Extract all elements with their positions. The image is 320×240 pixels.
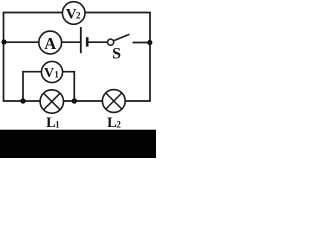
voltmeter V2: [62, 2, 85, 25]
wire: battery to switch: [87, 41, 107, 43]
wire: left bus: [3, 13, 5, 102]
wire: V1 loop top-right corner and lead: [63, 72, 75, 101]
wire: bottom row, bus to lamp L1: [3, 100, 41, 102]
switch S pivot: [108, 39, 114, 45]
svg-text:1: 1: [54, 70, 59, 80]
wire: top left segment: [3, 12, 63, 14]
svg-text:2: 2: [116, 119, 121, 129]
wire: L2 to right bus: [125, 100, 151, 102]
svg-text:S: S: [112, 46, 121, 63]
battery: long plate (positive): [80, 27, 82, 53]
svg-text:1: 1: [55, 119, 60, 129]
switch S blade: [114, 34, 130, 41]
node: left bus junction dot: [1, 39, 6, 44]
wire: top right segment: [85, 12, 151, 14]
svg-text:A: A: [44, 34, 56, 53]
wire: switch to right bus: [133, 42, 151, 44]
wire: V1 loop top-left corner and lead: [23, 72, 42, 101]
svg-text:V: V: [44, 66, 54, 81]
lamp L1: [40, 90, 63, 113]
svg-text:2: 2: [76, 12, 81, 22]
wire: ammeter to battery: [62, 41, 81, 43]
ammeter A: [39, 31, 62, 54]
wire: right bus: [149, 13, 151, 102]
node: L1 right tap dot: [72, 98, 77, 103]
wire: L1 to L2: [63, 100, 103, 102]
black bottom bar: [0, 130, 156, 158]
node: L1 left tap dot: [20, 98, 25, 103]
battery: short plate (negative): [86, 37, 89, 46]
lamp L2: [102, 90, 125, 113]
voltmeter V1: [41, 61, 62, 82]
wire: middle row, bus to ammeter: [4, 41, 39, 43]
node: right bus junction dot: [147, 40, 152, 45]
